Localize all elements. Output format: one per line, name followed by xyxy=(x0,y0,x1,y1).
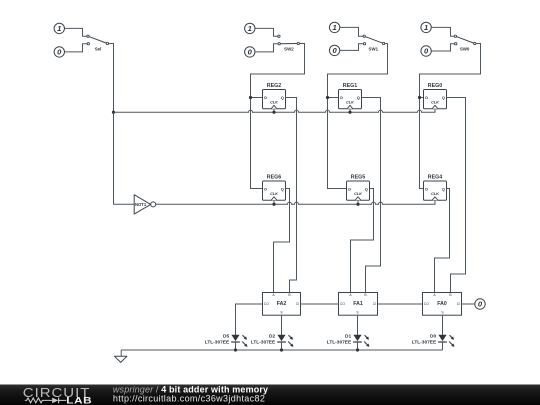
wire Sel common to NOT1 input (vertical rail) xyxy=(109,44,134,205)
register REG6 (D flip-flop) xyxy=(263,175,286,201)
svg-text:REG0: REG0 xyxy=(428,83,442,89)
wire SW1 "0" source to bottom throw xyxy=(340,44,363,51)
wire REG1 Q to FA1 B xyxy=(362,98,381,293)
wire FA0 CI to constant 0 xyxy=(462,303,475,305)
svg-text:1: 1 xyxy=(332,23,336,32)
footer url text xyxy=(113,393,265,403)
wire REG6 Q to FA2 A xyxy=(274,189,290,293)
svg-text:FA0: FA0 xyxy=(437,301,447,307)
svg-text:D: D xyxy=(425,96,428,100)
logic source "0" for SW1 xyxy=(329,45,339,55)
LED D5 (LTL-307EE) xyxy=(205,333,248,350)
wire FA1 S to LED D1 xyxy=(357,315,359,335)
svg-text:Sel: Sel xyxy=(95,46,102,51)
switch SEL (SPDT) xyxy=(87,35,109,51)
node D-feed junction (SW1) xyxy=(326,96,329,99)
svg-text:1: 1 xyxy=(57,24,61,33)
register REG1 (D flip-flop) xyxy=(339,83,362,109)
svg-text:CLK: CLK xyxy=(346,101,354,105)
svg-text:LTL-307EE: LTL-307EE xyxy=(327,340,352,346)
register REG4 (D flip-flop) xyxy=(424,175,447,201)
svg-text:CLK: CLK xyxy=(431,101,439,105)
full adder FA0 xyxy=(423,293,462,316)
wire REG5 CLK stem xyxy=(357,200,359,204)
LED D1 (LTL-307EE) xyxy=(327,333,370,350)
wire SW1 common to D inputs (top+bottom registers) xyxy=(328,44,388,189)
wire REG2 CLK stem xyxy=(273,109,275,112)
full adder FA1 xyxy=(339,293,378,316)
svg-text:D: D xyxy=(264,188,267,192)
wire branch to top register D (SW1) xyxy=(328,97,339,99)
svg-text:NOT1: NOT1 xyxy=(135,202,147,207)
node REG5 CLK junction xyxy=(356,203,359,206)
svg-text:LTL-307EE: LTL-307EE xyxy=(205,340,230,346)
wire FA0 S to LED D0 xyxy=(442,315,444,335)
svg-text:FA2: FA2 xyxy=(277,301,287,307)
svg-text:SW2: SW2 xyxy=(284,46,294,51)
LED D2 (LTL-307EE) xyxy=(251,333,294,350)
logic source "0" for SEL xyxy=(54,47,64,57)
svg-text:REG4: REG4 xyxy=(428,175,442,181)
svg-text:D5: D5 xyxy=(223,333,229,339)
wire REG0 Q to FA0 B xyxy=(447,98,466,293)
svg-text:1: 1 xyxy=(424,23,428,32)
svg-text:CI: CI xyxy=(373,302,376,306)
node LED D2 to ground xyxy=(280,348,283,351)
svg-text:Q: Q xyxy=(442,188,445,192)
svg-text:REG6: REG6 xyxy=(267,175,281,181)
logic source "1" for SW2 xyxy=(245,23,255,33)
wire REG5 Q to FA1 A xyxy=(351,189,374,293)
wire FA1 CO to FA2 CI xyxy=(301,303,339,305)
register REG2 (D flip-flop) xyxy=(263,83,286,109)
svg-text:Q: Q xyxy=(281,188,284,192)
svg-text:CLK: CLK xyxy=(270,192,278,196)
wire REG2 Q to FA2 B xyxy=(286,98,297,293)
node D-feed junction (SW2) xyxy=(249,96,252,99)
logic source "1" for SW0 xyxy=(421,22,431,32)
svg-text:CLK: CLK xyxy=(270,101,278,105)
wire FA0 CO to FA1 CI xyxy=(378,303,423,305)
wire branch to top register D (SW2) xyxy=(251,97,263,99)
svg-text:SW1: SW1 xyxy=(369,46,379,51)
node LED D5 to ground xyxy=(234,348,237,351)
svg-text:LAB: LAB xyxy=(66,396,92,405)
wire branch to top register D (SW0) xyxy=(420,97,424,99)
svg-text:FA1: FA1 xyxy=(353,301,363,307)
svg-text:D: D xyxy=(425,188,428,192)
CircuitLab logo xyxy=(23,386,92,405)
svg-text:1: 1 xyxy=(248,24,252,33)
wire FA2 CO to LED D5 xyxy=(236,304,263,335)
wire SW0 common to D inputs (top+bottom registers) xyxy=(420,44,481,189)
svg-text:D: D xyxy=(340,96,343,100)
node REG1 CLK junction xyxy=(348,111,351,114)
logic source "1" for SW1 xyxy=(329,22,339,32)
wire REG6 CLK stem xyxy=(273,200,275,204)
svg-text:Q: Q xyxy=(281,96,284,100)
svg-text:Q: Q xyxy=(357,96,360,100)
svg-text:http://circuitlab.com/c36w3jdh: http://circuitlab.com/c36w3jdhtac82 xyxy=(113,393,265,403)
full adder FA2 xyxy=(263,293,301,316)
switch SW2 (SPDT) xyxy=(278,35,300,51)
svg-text:D2: D2 xyxy=(269,333,275,339)
wire SW0 "0" source to bottom throw xyxy=(431,44,454,51)
svg-text:CO: CO xyxy=(340,302,345,306)
footer title text xyxy=(113,384,268,394)
wire SEL "0" source to bottom throw xyxy=(65,44,88,52)
wire SW1 "1" source to top throw xyxy=(340,27,363,36)
wire ground bus xyxy=(121,349,442,351)
svg-text:CLK: CLK xyxy=(354,192,362,196)
wire REG4 Q to FA0 A xyxy=(435,189,450,293)
svg-text:CO: CO xyxy=(424,302,429,306)
wire REG1 CLK stem xyxy=(349,109,351,112)
switch SW0 (SPDT) xyxy=(454,35,476,51)
svg-text:D: D xyxy=(348,188,351,192)
svg-text:REG5: REG5 xyxy=(351,175,365,181)
wire SW2 "0" source to bottom throw xyxy=(255,44,278,52)
wire CLK bus A (Sel to top registers, ends at REG0 CLK) xyxy=(114,109,436,112)
node REG6 CLK junction xyxy=(272,203,275,206)
node REG2 CLK junction xyxy=(272,111,275,114)
svg-text:Q: Q xyxy=(365,188,368,192)
svg-text:CI: CI xyxy=(296,302,299,306)
svg-text:D1: D1 xyxy=(345,333,351,339)
LED D0 (LTL-307EE) xyxy=(412,333,455,350)
wire SW0 "1" source to top throw xyxy=(431,27,454,36)
logic source "0" for SW0 xyxy=(421,46,431,56)
node Sel/CLK-bus-A junction xyxy=(112,111,115,114)
switch SW1 (SPDT) xyxy=(363,35,385,51)
node LED D1 to ground xyxy=(356,348,359,351)
logic source "1" for SEL xyxy=(54,23,64,33)
svg-text:SW0: SW0 xyxy=(460,46,470,51)
wire SEL "1" source to top throw xyxy=(65,28,87,36)
svg-text:CLK: CLK xyxy=(431,192,439,196)
node D-feed junction (SW0) xyxy=(418,96,421,99)
inverter NOT1 xyxy=(134,195,156,214)
logic source "0" at FA0 carry-in xyxy=(475,299,485,309)
svg-text:CI: CI xyxy=(457,302,460,306)
svg-text:Q: Q xyxy=(442,96,445,100)
wire FA2 S to LED D2 xyxy=(281,315,283,335)
logic source "0" for SW2 xyxy=(245,47,255,57)
footer bar xyxy=(0,385,540,405)
svg-text:LTL-307EE: LTL-307EE xyxy=(412,340,437,346)
wire SW2 common to D inputs (top+bottom registers) xyxy=(251,44,305,189)
svg-text:CO: CO xyxy=(264,302,269,306)
svg-text:REG1: REG1 xyxy=(343,83,357,89)
wire SW2 "1" source to top throw xyxy=(255,28,278,36)
svg-text:REG2: REG2 xyxy=(267,83,281,89)
register REG5 (D flip-flop) xyxy=(347,175,370,201)
svg-text:LTL-307EE: LTL-307EE xyxy=(251,340,276,346)
register REG0 (D flip-flop) xyxy=(424,83,447,109)
ground xyxy=(114,350,127,362)
svg-text:D: D xyxy=(264,96,267,100)
wire CLK bus B (NOT1 output to bottom registers, ends at REG4 CLK) xyxy=(156,200,435,204)
svg-text:D0: D0 xyxy=(430,333,436,339)
